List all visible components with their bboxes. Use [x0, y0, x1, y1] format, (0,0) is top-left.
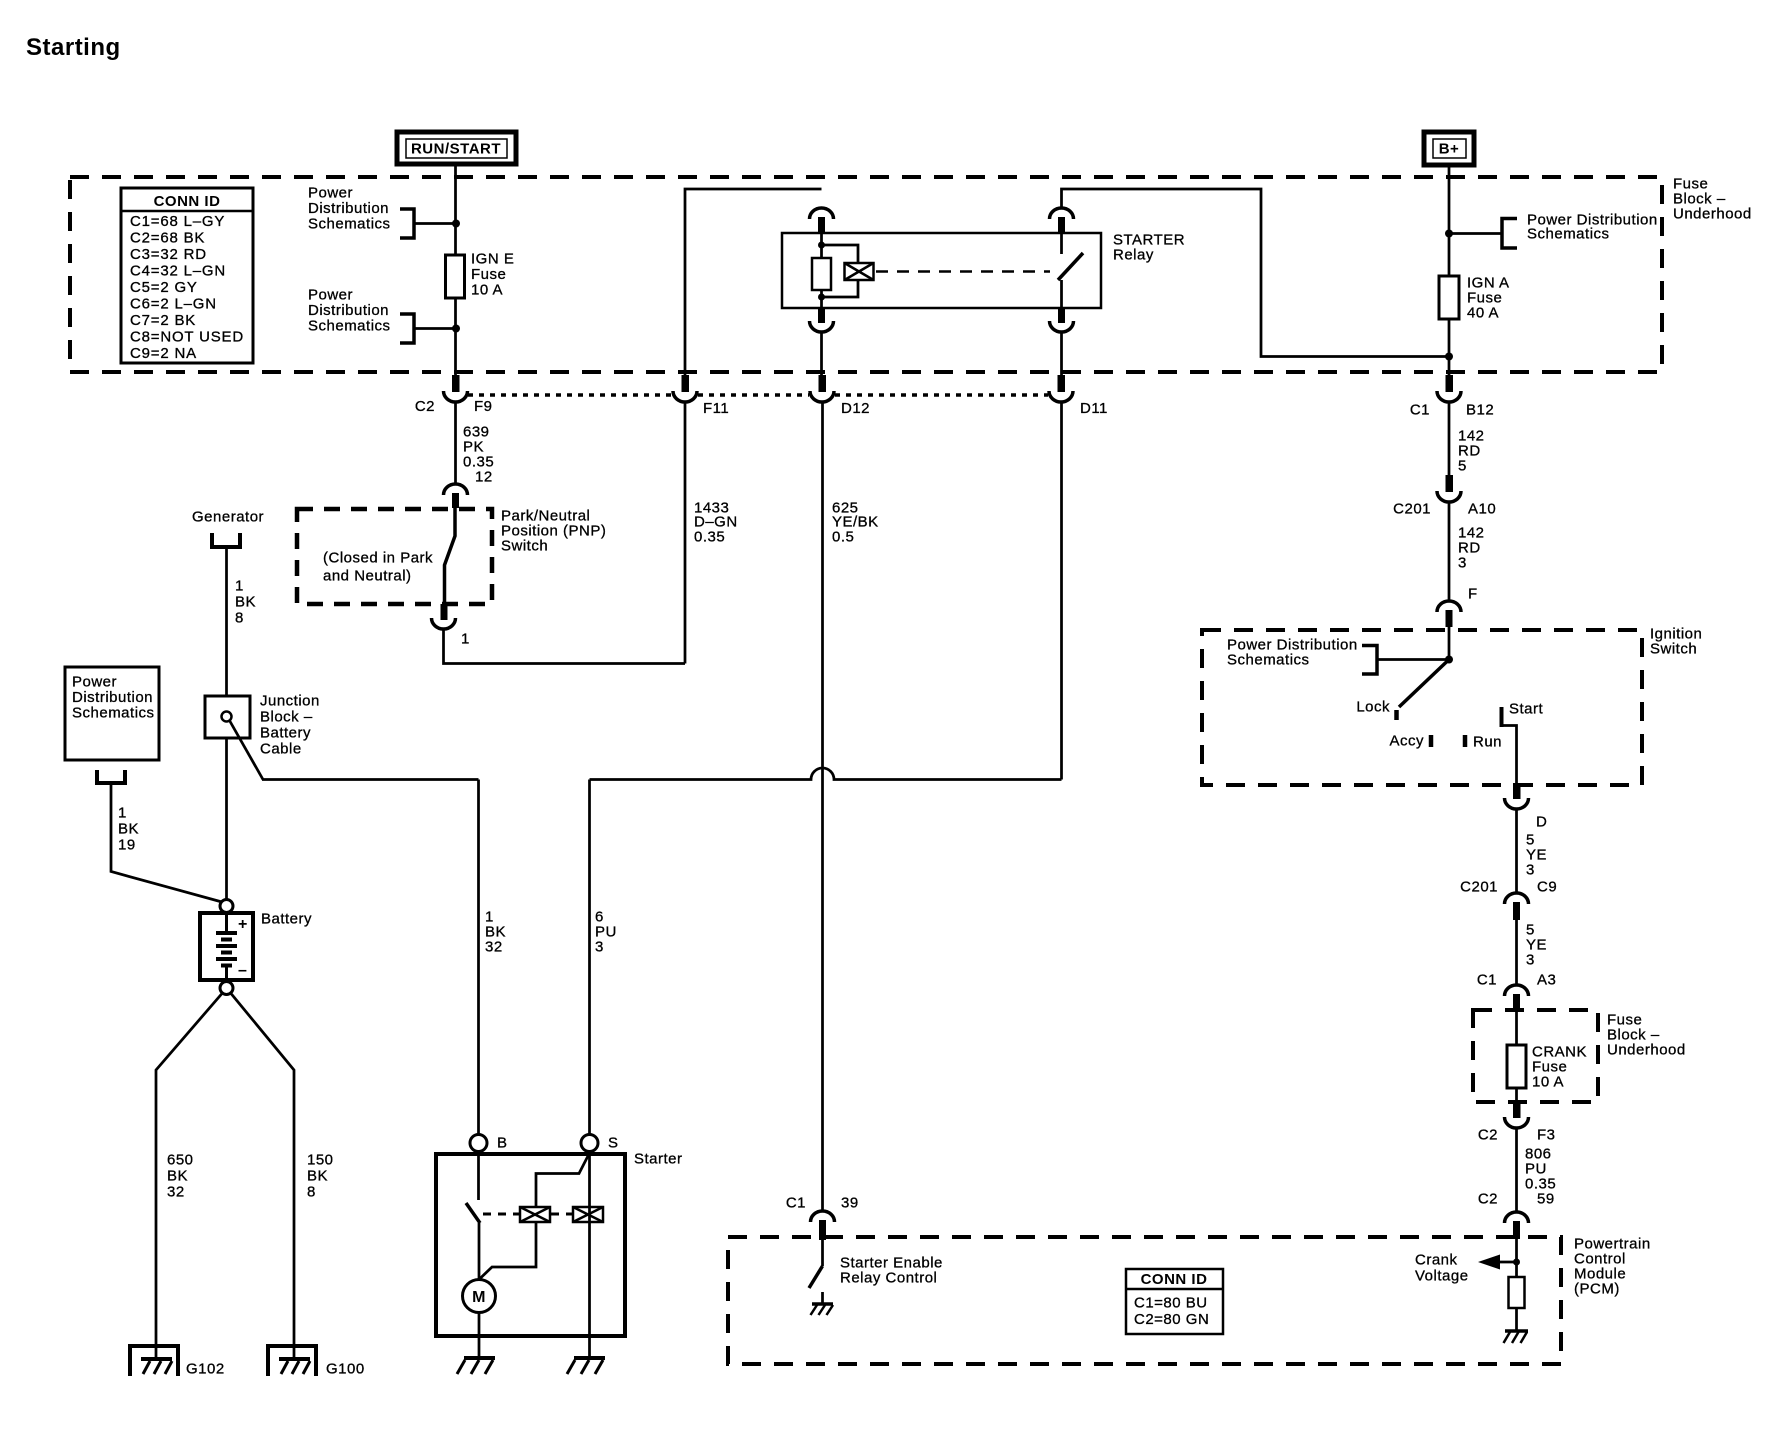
wire D11 horizontal to S column with hop over D12 [590, 768, 1062, 780]
svg-text:C201: C201 [1460, 879, 1498, 896]
svg-text:Battery: Battery [261, 911, 312, 928]
connector C201/C9 [1460, 879, 1557, 921]
svg-text:G100: G100 [326, 1361, 365, 1378]
svg-text:(Closed in Park: (Closed in Park [323, 550, 433, 567]
svg-text:C8=NOT USED: C8=NOT USED [130, 329, 244, 346]
label Battery [261, 911, 312, 928]
svg-text:40 A: 40 A [1467, 305, 1499, 322]
off-page bracket PDS box [97, 770, 125, 783]
svg-text:Start: Start [1509, 701, 1544, 718]
label Crank Voltage [1415, 1252, 1469, 1285]
connector D11 [1049, 375, 1108, 417]
svg-text:–: – [238, 962, 247, 979]
wire B column down [477, 780, 480, 1136]
winding hold-in (crossed box) [573, 1207, 603, 1222]
svg-text:Generator: Generator [192, 509, 264, 526]
node RUN/START [397, 132, 516, 164]
label wire 1 BK 19 [118, 805, 139, 854]
svg-text:3: 3 [1526, 952, 1535, 969]
svg-text:D12: D12 [841, 400, 870, 417]
svg-text:Cable: Cable [260, 741, 302, 758]
label Power Distribution Schematics (ignition) [1227, 637, 1358, 669]
svg-text:B: B [497, 1135, 508, 1152]
fuse block underhood dashed box [70, 177, 1662, 372]
label wire 142 RD 5 [1458, 428, 1485, 475]
svg-text:C1: C1 [1410, 402, 1430, 419]
connector PNP pin 1 [432, 604, 470, 648]
node Start contact [1502, 701, 1544, 728]
wire motor to ground [478, 1313, 481, 1359]
svg-text:12: 12 [475, 469, 493, 486]
svg-text:Battery: Battery [260, 725, 311, 742]
power distribution schematics box [65, 667, 159, 760]
resistor PCM crank voltage [1509, 1277, 1525, 1308]
terminal B [470, 1135, 508, 1152]
label Power Distribution Schematics (upper left) [308, 185, 391, 233]
label wire 1433 D-GN 0.35 [694, 500, 738, 546]
title Starting [26, 34, 121, 61]
svg-text:Lock: Lock [1356, 699, 1390, 716]
connector relay switch top [1050, 208, 1074, 233]
svg-text:C7=2 BK: C7=2 BK [130, 312, 196, 329]
node ignition junction dot [1445, 656, 1453, 664]
svg-text:Voltage: Voltage [1415, 1268, 1469, 1285]
wire PNP out down and right to F11 column [444, 629, 686, 664]
switch PNP blade [445, 508, 456, 604]
svg-text:BK: BK [307, 1168, 328, 1185]
wire PDS to battery [111, 783, 222, 902]
wire B feed horizontal [262, 778, 479, 781]
label Junction Block - Battery Cable [260, 693, 320, 758]
wire actuator dashed starter [483, 1213, 572, 1216]
wire battery to G100 [231, 994, 294, 1359]
svg-text:Distribution: Distribution [308, 200, 389, 217]
connector C2/F3 [1478, 1102, 1556, 1144]
node B+ [1424, 132, 1474, 165]
ground G102 [130, 1346, 225, 1378]
svg-text:Distribution: Distribution [308, 302, 389, 319]
connector relay switch bottom [1050, 308, 1074, 332]
off-page bracket right [1502, 219, 1517, 249]
node IGN A lower junction dot [1445, 353, 1453, 361]
wire S column down [588, 780, 591, 1136]
wire B+ down [1448, 165, 1451, 276]
wire A10 to F [1448, 502, 1451, 601]
wire C2/F9 to PNP [454, 402, 457, 484]
connector C2/59 [1478, 1191, 1555, 1240]
svg-text:C5=2 GY: C5=2 GY [130, 279, 198, 296]
svg-text:M: M [472, 1289, 486, 1306]
terminal S [581, 1135, 619, 1152]
wire 59 into PCM [1515, 1239, 1518, 1277]
label wire 625 YE/BK 0.5 [832, 500, 879, 546]
off-page bracket ignition [1362, 646, 1377, 675]
wire IGN E fuse to C2 [454, 298, 457, 377]
svg-text:Block –: Block – [260, 709, 313, 726]
svg-text:(PCM): (PCM) [1574, 1281, 1620, 1298]
ground PCM left [811, 1292, 834, 1315]
svg-text:Underhood: Underhood [1607, 1042, 1686, 1059]
connector F11 [673, 375, 729, 417]
label Power Distribution Schematics (lower left) [308, 287, 391, 335]
label STARTER Relay [1113, 232, 1185, 264]
ignition switch dashed box [1202, 630, 1642, 785]
node relay coil top dot [818, 242, 825, 249]
node Run contact [1465, 734, 1502, 751]
label wire 6 PU 3 [595, 909, 617, 956]
label wire 806 PU 0.35 [1525, 1146, 1556, 1193]
node Accy contact [1389, 733, 1431, 750]
svg-text:8: 8 [307, 1184, 316, 1201]
svg-text:Switch: Switch [501, 538, 548, 555]
svg-text:Relay Control: Relay Control [840, 1270, 937, 1287]
wire junction block to battery [225, 738, 228, 900]
ground G100 [268, 1346, 365, 1378]
svg-text:A10: A10 [1468, 501, 1496, 518]
svg-text:C2=68 BK: C2=68 BK [130, 230, 205, 247]
svg-text:39: 39 [841, 1195, 859, 1212]
label Power Distribution Schematics (right) [1527, 212, 1658, 243]
wire B down [477, 1152, 480, 1201]
svg-text:Underhood: Underhood [1673, 206, 1752, 223]
svg-text:8: 8 [235, 610, 244, 627]
label wire 1 BK 32 (B) [485, 909, 506, 956]
label Starter [634, 1151, 683, 1168]
wire S through hold-in winding to ground [588, 1152, 591, 1359]
svg-text:Schematics: Schematics [308, 216, 391, 233]
svg-text:Switch: Switch [1650, 641, 1697, 658]
svg-text:C4=32 L–GN: C4=32 L–GN [130, 263, 226, 280]
svg-text:Starting: Starting [26, 34, 121, 61]
svg-text:1: 1 [235, 578, 244, 595]
svg-text:D: D [1536, 814, 1547, 831]
svg-text:0.35: 0.35 [694, 529, 725, 546]
wire bracket to RUN/START column [414, 222, 456, 225]
svg-text:C1: C1 [1477, 972, 1497, 989]
svg-text:and Neutral): and Neutral) [323, 568, 412, 585]
svg-text:Run: Run [1473, 734, 1502, 751]
PCM dashed box [728, 1237, 1561, 1364]
wire B12 to C201 [1448, 402, 1451, 477]
wire crank voltage arrow [1478, 1255, 1517, 1270]
svg-text:C201: C201 [1393, 501, 1431, 518]
fuse block underhood small dashed box [1473, 1010, 1598, 1102]
wire pull-in winding to motor node [480, 1222, 537, 1279]
relay STARTER box [782, 233, 1101, 308]
svg-text:CONN ID: CONN ID [1141, 1271, 1208, 1288]
svg-text:Power: Power [72, 674, 117, 691]
svg-text:Fuse: Fuse [471, 266, 506, 283]
svg-text:S: S [608, 1135, 619, 1152]
svg-text:3: 3 [1526, 862, 1535, 879]
svg-text:3: 3 [595, 939, 604, 956]
dotted connector line across fuse block bottom [468, 393, 1048, 397]
svg-text:Schematics: Schematics [72, 705, 155, 722]
wire battery to G102 [156, 994, 222, 1359]
svg-text:B12: B12 [1466, 402, 1494, 419]
label Fuse Block - Underhood (crank) [1607, 1012, 1686, 1059]
svg-text:Accy: Accy [1389, 733, 1424, 750]
motor M [463, 1280, 496, 1313]
svg-text:5: 5 [1458, 458, 1467, 475]
label wire 1 BK 8 [235, 578, 256, 627]
svg-text:0.5: 0.5 [832, 529, 854, 546]
node junction dot lower [452, 325, 460, 333]
connector relay coil bottom [810, 308, 834, 332]
winding pull-in (crossed box) [520, 1207, 550, 1222]
svg-text:150: 150 [307, 1152, 334, 1169]
svg-text:F11: F11 [703, 400, 729, 417]
wire crank fuse to C2/F3 [1515, 1088, 1518, 1104]
svg-text:32: 32 [167, 1184, 185, 1201]
svg-text:IGN E: IGN E [471, 251, 514, 268]
ground PCM right [1504, 1308, 1529, 1343]
wire F11 inside fuse block [685, 189, 822, 377]
svg-text:C1: C1 [786, 1195, 806, 1212]
fuse IGN A [1439, 275, 1510, 322]
switch starter enable relay control [809, 1240, 823, 1288]
svg-text:650: 650 [167, 1152, 194, 1169]
connector C1/A3 [1477, 972, 1557, 1013]
PNP switch dashed box [297, 509, 492, 604]
svg-text:+: + [238, 916, 248, 933]
switch relay contact [1058, 233, 1083, 308]
svg-text:C2: C2 [415, 398, 435, 415]
wire F3 to 59 [1515, 1128, 1518, 1212]
svg-text:C2=80 GN: C2=80 GN [1134, 1311, 1209, 1328]
svg-text:BK: BK [235, 594, 256, 611]
svg-text:3: 3 [1458, 555, 1467, 572]
svg-text:1: 1 [461, 631, 470, 648]
label wire 650 BK 32 [167, 1152, 194, 1201]
svg-text:Relay: Relay [1113, 247, 1154, 264]
connector C2/F9 [415, 375, 493, 415]
svg-text:Starter: Starter [634, 1151, 683, 1168]
connector D12 [810, 375, 870, 417]
label Powertrain Control Module (PCM) [1574, 1236, 1651, 1298]
svg-text:C9: C9 [1537, 879, 1557, 896]
off-page bracket lower [400, 314, 414, 343]
svg-text:C1=68 L–GY: C1=68 L–GY [130, 213, 225, 230]
wire F into switch [1448, 627, 1451, 660]
fuse IGN E [446, 251, 515, 299]
label Generator [192, 509, 264, 526]
svg-text:Crank: Crank [1415, 1252, 1458, 1269]
wire Start down to D [1501, 726, 1517, 786]
switch ignition blade to Lock [1399, 660, 1449, 708]
node junction dot upper [452, 220, 460, 228]
wire C9 to A3 [1515, 920, 1518, 985]
connector PNP top [444, 484, 468, 508]
label Starter Enable Relay Control [840, 1255, 943, 1287]
connector F ignition switch [1437, 586, 1478, 628]
svg-text:Power: Power [308, 185, 353, 202]
svg-text:F3: F3 [1537, 1127, 1556, 1144]
wire relay switch top to B+ junction [1062, 189, 1450, 357]
fuse CRANK [1507, 1044, 1587, 1091]
CONN ID table fuse block [121, 188, 253, 363]
wire IGN A to C1/B12 [1448, 319, 1451, 377]
starter box [436, 1154, 625, 1336]
off-page bracket generator [212, 533, 240, 547]
node Lock contact [1356, 699, 1396, 721]
svg-text:F: F [1468, 586, 1478, 603]
svg-text:10 A: 10 A [1532, 1074, 1564, 1091]
junction block battery cable [205, 696, 250, 738]
svg-text:C6=2 L–GN: C6=2 L–GN [130, 296, 217, 313]
node relay coil bottom dot [818, 294, 825, 301]
svg-text:Distribution: Distribution [72, 689, 153, 706]
wire bracket to fuse column [414, 327, 456, 330]
svg-text:BK: BK [167, 1168, 188, 1185]
wire D to C9 [1515, 809, 1518, 893]
connector D [1505, 783, 1548, 831]
svg-text:C9=2 NA: C9=2 NA [130, 345, 197, 362]
svg-text:B+: B+ [1439, 141, 1460, 158]
wire relay coil bottom [820, 290, 823, 308]
switch starter solenoid contact blade [466, 1203, 480, 1223]
off-page bracket upper [400, 209, 414, 238]
resistor relay coil [812, 258, 831, 290]
label Park/Neutral Position (PNP) Switch [501, 508, 606, 555]
wire F11 column below fuse block [684, 402, 687, 664]
connector C1/39 [786, 1195, 859, 1241]
svg-text:C1=80 BU: C1=80 BU [1134, 1295, 1208, 1312]
wire S to pull-in winding [536, 1153, 590, 1207]
label Ignition Switch [1650, 626, 1702, 658]
label wire 142 RD 3 [1458, 525, 1485, 572]
svg-text:Junction: Junction [260, 693, 320, 710]
node B+ junction dot [1445, 230, 1453, 238]
relay coil wire top [820, 233, 823, 258]
wire generator down [225, 547, 228, 696]
svg-text:A3: A3 [1537, 972, 1556, 989]
wire contact to motor [478, 1223, 481, 1280]
wire A3 to crank fuse [1515, 1012, 1518, 1045]
wire D11 down [1060, 402, 1063, 780]
svg-text:C2: C2 [1478, 1127, 1498, 1144]
diode relay suppression (crossed box) [845, 263, 874, 280]
svg-text:59: 59 [1537, 1191, 1555, 1208]
wire relay coil to D12 [820, 332, 823, 377]
svg-text:G102: G102 [186, 1361, 225, 1378]
label wire 150 BK 8 [307, 1152, 334, 1201]
svg-text:CONN ID: CONN ID [154, 193, 221, 210]
svg-text:1: 1 [118, 805, 127, 822]
svg-text:C2: C2 [1478, 1191, 1498, 1208]
label (Closed in Park and Neutral) [323, 550, 433, 585]
svg-text:C3=32 RD: C3=32 RD [130, 246, 207, 263]
label Fuse Block - Underhood [1673, 176, 1752, 223]
battery [200, 900, 253, 995]
svg-text:10 A: 10 A [471, 282, 503, 299]
connector C1/B12 [1410, 375, 1494, 419]
connector C201/A10 [1393, 475, 1496, 518]
svg-text:Schematics: Schematics [1227, 652, 1310, 669]
svg-text:19: 19 [118, 837, 136, 854]
node crank voltage junction dot [1513, 1259, 1520, 1266]
wire D12 column long [821, 402, 824, 1211]
svg-text:Schematics: Schematics [1527, 226, 1610, 243]
svg-text:D11: D11 [1080, 400, 1108, 417]
label wire 5 YE 3 upper [1526, 832, 1547, 879]
CONN ID table PCM [1126, 1269, 1223, 1334]
svg-text:RUN/START: RUN/START [411, 141, 501, 158]
wire relay diode branch [822, 245, 859, 297]
svg-text:BK: BK [118, 821, 139, 838]
wire junction block diagonal to B feed [230, 721, 264, 780]
label wire 639 PK 0.35 12 [463, 424, 494, 486]
svg-text:Schematics: Schematics [308, 318, 391, 335]
wire relay actuator dashed [876, 270, 1050, 273]
ground starter solenoid [567, 1358, 605, 1374]
wire RUN/START down [454, 165, 457, 255]
svg-text:32: 32 [485, 939, 503, 956]
connector relay coil top [810, 208, 834, 233]
wire B+ to bracket [1449, 232, 1501, 235]
label wire 5 YE 3 lower [1526, 922, 1547, 969]
svg-text:F9: F9 [474, 398, 493, 415]
wire bracket to ignition junction [1377, 658, 1449, 661]
svg-text:Power: Power [308, 287, 353, 304]
ground starter motor [457, 1358, 495, 1374]
wire relay switch to D11 [1060, 332, 1063, 377]
